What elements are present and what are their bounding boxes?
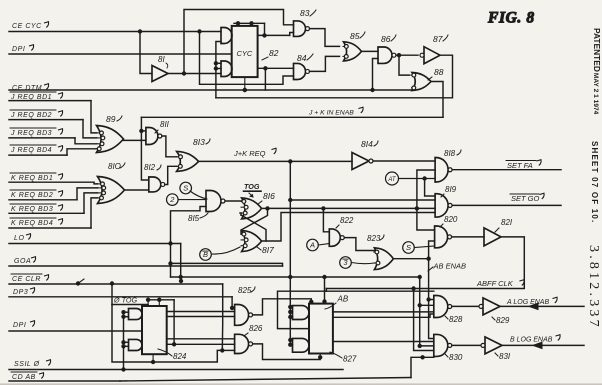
AND gate AB lower input bbox=[293, 338, 310, 352]
wire 830 to 831 bbox=[452, 344, 481, 346]
svg-text:DP3: DP3 bbox=[13, 289, 28, 296]
wire AT branch to 819 bbox=[425, 179, 436, 197]
wire 816 branch to 822 bbox=[323, 208, 329, 231]
wire LO wrap to 815 bbox=[171, 207, 207, 244]
svg-text:SHEET 07 OF 10.: SHEET 07 OF 10. bbox=[590, 141, 599, 223]
wire 814 to 818 bbox=[373, 160, 435, 162]
circle 3-bar bbox=[340, 257, 352, 269]
label PATENTED MAY 21 1974 bbox=[592, 28, 602, 115]
svg-text:J REQ BD4: J REQ BD4 bbox=[10, 147, 52, 154]
wire 88 output to J+K IN ENAB bbox=[431, 82, 443, 118]
NOR gate 816 bbox=[242, 198, 262, 219]
wire 85 to 86 bbox=[362, 50, 379, 52]
svg-text:87: 87 bbox=[433, 34, 443, 44]
wire A LOG ENAB output bbox=[500, 305, 584, 307]
svg-text:CE DTM: CE DTM bbox=[12, 85, 42, 92]
svg-text:A: A bbox=[309, 241, 315, 250]
wire 817 output riser bbox=[262, 213, 436, 242]
svg-text:CYC: CYC bbox=[237, 49, 253, 58]
wire 84 output bbox=[310, 56, 340, 71]
svg-text:S: S bbox=[406, 243, 411, 252]
svg-text:8I7: 8I7 bbox=[262, 245, 274, 255]
svg-text:K REQ BD3: K REQ BD3 bbox=[11, 206, 53, 213]
NAND gate 830 bbox=[434, 334, 448, 356]
wire J+K REQ vertical bbox=[289, 161, 291, 344]
svg-text:8I3: 8I3 bbox=[193, 137, 205, 147]
svg-text:829: 829 bbox=[496, 316, 510, 325]
NAND gate 818 bbox=[435, 158, 448, 183]
svg-text:824: 824 bbox=[173, 352, 187, 361]
wire CE CLR branch to 0TOG loop bbox=[111, 284, 113, 305]
wire CE CLR drop to 826 bbox=[221, 284, 223, 350]
svg-text:B LOG ENAB: B LOG ENAB bbox=[510, 337, 553, 344]
wire 828 to 829 bbox=[452, 305, 479, 307]
wire CE DTM riser to 86 bbox=[373, 59, 379, 91]
svg-text:82: 82 bbox=[269, 48, 279, 58]
wire 0TOG loop bbox=[112, 305, 222, 363]
inverter 814 bbox=[352, 153, 369, 170]
svg-text:88: 88 bbox=[434, 67, 444, 77]
wire 811 to 813 bbox=[162, 136, 177, 157]
wire ABFF CLK drop bbox=[414, 289, 434, 351]
wire 824 top pins bbox=[148, 299, 174, 301]
svg-text:CD AB: CD AB bbox=[12, 374, 36, 381]
svg-text:FIG. 8: FIG. 8 bbox=[487, 10, 535, 27]
NAND gate 86 bbox=[378, 47, 392, 63]
label patent number 3812337 bbox=[586, 245, 601, 330]
flip-flop CYC 82 box bbox=[232, 26, 258, 77]
wire 816 branch to 818 bbox=[417, 170, 435, 208]
NOR gate 810 bbox=[98, 177, 125, 204]
svg-text:8I9: 8I9 bbox=[445, 185, 457, 194]
svg-text:AT: AT bbox=[387, 177, 397, 183]
svg-text:8II: 8II bbox=[160, 120, 170, 129]
wire 815 to 816 bbox=[225, 200, 242, 202]
AND gate CYC lower driver bbox=[221, 61, 232, 77]
wire 826 output loop bbox=[253, 344, 321, 360]
svg-text:830: 830 bbox=[449, 353, 463, 362]
wire SSIL riser bbox=[123, 312, 125, 369]
NAND gate 819 bbox=[435, 194, 448, 217]
wire SET GO output bbox=[452, 204, 561, 206]
svg-text:A LOG ENAB: A LOG ENAB bbox=[506, 299, 549, 306]
NAND gate 812 bbox=[149, 177, 161, 192]
svg-text:8I2: 8I2 bbox=[144, 163, 156, 172]
svg-text:83: 83 bbox=[300, 8, 310, 18]
svg-text:84: 84 bbox=[297, 53, 307, 63]
inverter 87 bbox=[424, 47, 440, 64]
circle S upper bbox=[180, 182, 192, 194]
wire J+K IN ENAB drop to 811 812 bbox=[141, 117, 148, 180]
svg-text:J REQ BD3: J REQ BD3 bbox=[10, 130, 52, 137]
wire 86 to 87 bbox=[396, 54, 418, 56]
svg-text:K REQ BD1: K REQ BD1 bbox=[11, 175, 53, 182]
wire clock feedback riser bbox=[216, 42, 221, 98]
wire CYC bottom pin bbox=[244, 77, 246, 90]
wire latch cross couple bbox=[241, 208, 268, 234]
buffer 829 bbox=[483, 298, 500, 315]
wire bus J+K REQ branch bbox=[290, 199, 435, 201]
svg-text:AB ENAB: AB ENAB bbox=[433, 262, 467, 271]
svg-text:820: 820 bbox=[444, 215, 458, 224]
wire top feedback rail bbox=[184, 10, 294, 74]
svg-text:89: 89 bbox=[106, 114, 116, 124]
wire 812 to 813 bbox=[165, 166, 177, 184]
wire GOA wrap bbox=[171, 263, 283, 266]
svg-text:AB: AB bbox=[337, 295, 349, 304]
wire J+K IN ENAB line bbox=[141, 116, 443, 118]
wire AB out to 830 bbox=[333, 341, 434, 343]
svg-text:825: 825 bbox=[238, 286, 252, 295]
flip-flop AB 827 box bbox=[309, 304, 333, 354]
svg-text:SSIL Ø: SSIL Ø bbox=[14, 361, 40, 368]
svg-text:J + K IN ENAB: J + K IN ENAB bbox=[308, 110, 354, 117]
wire CE CYC to inverter 81 bbox=[140, 32, 151, 74]
wire 810 to 812 bbox=[125, 189, 149, 191]
NAND gate 826 bbox=[235, 334, 249, 353]
wire ABFF CLK bbox=[327, 237, 525, 289]
NAND gate 84 bbox=[294, 63, 306, 79]
NOR gate 85 bbox=[344, 42, 362, 61]
svg-text:8I5: 8I5 bbox=[188, 214, 200, 223]
wire 89 to 811 bbox=[124, 139, 146, 141]
wire CYC Q2 output to 84 bbox=[258, 67, 294, 69]
circle A bbox=[307, 239, 319, 251]
svg-text:J+K REQ: J+K REQ bbox=[233, 149, 266, 158]
flip-flop 824 box bbox=[142, 306, 167, 354]
svg-text:82I: 82I bbox=[501, 218, 513, 227]
svg-text:LO: LO bbox=[14, 235, 24, 242]
wire AB ENAB bbox=[393, 259, 433, 339]
svg-text:K REQ BD2: K REQ BD2 bbox=[11, 192, 53, 199]
wire 824 outputs to 826 bbox=[167, 338, 235, 340]
svg-text:S: S bbox=[183, 184, 188, 193]
NAND gate 822 bbox=[329, 229, 340, 246]
svg-text:8IO: 8IO bbox=[108, 162, 121, 171]
svg-text:85: 85 bbox=[350, 31, 360, 41]
NOR gate 823 bbox=[374, 248, 393, 270]
wire 816 branch to 820 bbox=[417, 208, 435, 230]
svg-text:GOA: GOA bbox=[14, 258, 31, 265]
svg-text:TOG: TOG bbox=[244, 182, 260, 191]
AND gate 824 lower input bbox=[129, 339, 143, 350]
svg-text:827: 827 bbox=[343, 355, 357, 364]
wire 822 to 823 bbox=[344, 238, 374, 251]
circle 2 bbox=[167, 194, 179, 206]
wire J+K REQ line bbox=[199, 160, 352, 162]
svg-text:K REQ BD4: K REQ BD4 bbox=[11, 220, 53, 227]
wire SET FA output bbox=[452, 169, 561, 171]
circle AT bbox=[386, 172, 399, 185]
svg-text:DPI: DPI bbox=[12, 46, 25, 53]
svg-text:8I6: 8I6 bbox=[263, 191, 275, 201]
svg-text:8I4: 8I4 bbox=[361, 139, 373, 149]
circle B-bar bbox=[200, 249, 212, 261]
wire ABFF CLK left end bbox=[325, 289, 327, 292]
wire GOA drop to AB pin bbox=[324, 277, 326, 304]
scan edge shading bbox=[0, 383, 602, 385]
svg-text:83I: 83I bbox=[499, 352, 511, 361]
svg-text:SET FA: SET FA bbox=[507, 161, 533, 170]
wire 823 branch to 820 bbox=[429, 241, 435, 259]
svg-text:8I: 8I bbox=[158, 55, 165, 64]
svg-text:826: 826 bbox=[249, 324, 263, 333]
wire 825 output loop bbox=[253, 299, 312, 315]
wire AB out to 828 bbox=[333, 311, 434, 313]
svg-text:CE CLR: CE CLR bbox=[12, 276, 41, 283]
svg-text:CE CYC: CE CYC bbox=[12, 23, 42, 30]
svg-text:2: 2 bbox=[169, 195, 175, 204]
wire 820 to 821 bbox=[452, 236, 484, 238]
buffer 831 bbox=[485, 337, 502, 354]
svg-text:86: 86 bbox=[381, 34, 391, 44]
NAND gate 815 bbox=[206, 191, 221, 212]
wire 81 output bbox=[168, 73, 221, 75]
wire J+K REQ taps to AB gates bbox=[288, 305, 292, 309]
NOR gate 89 bbox=[97, 126, 124, 153]
svg-text:J REQ BD2: J REQ BD2 bbox=[10, 112, 52, 119]
AND gate AB upper input bbox=[293, 306, 309, 320]
svg-text:828: 828 bbox=[449, 315, 463, 324]
OR gate 813 bbox=[177, 151, 199, 171]
svg-text:823: 823 bbox=[367, 234, 381, 243]
wire B LOG ENAB output bbox=[502, 344, 584, 346]
NAND gate 820 bbox=[435, 226, 448, 248]
wire CYC Q output to 83 bbox=[258, 34, 290, 36]
NOR gate 88 bbox=[412, 73, 431, 91]
svg-text:8I8: 8I8 bbox=[444, 149, 456, 158]
NAND gate 83 bbox=[294, 21, 306, 37]
wire AB out2 under 828 bbox=[333, 314, 434, 317]
wire AB bottom pin bbox=[319, 354, 321, 360]
svg-text:DPI: DPI bbox=[13, 322, 26, 329]
AND gate 824 upper input bbox=[129, 309, 143, 320]
wire 87 output feedback bbox=[216, 55, 453, 98]
svg-text:SET GO: SET GO bbox=[511, 194, 540, 203]
wire CE CYC branch down bbox=[200, 32, 294, 85]
NAND gate 825 bbox=[235, 305, 249, 326]
AND gate CYC upper driver bbox=[221, 28, 232, 44]
svg-text:ABFF CLK: ABFF CLK bbox=[476, 279, 514, 288]
label SHEET 07 OF 10 bbox=[590, 141, 599, 223]
circle S lower bbox=[403, 242, 415, 254]
wire 824 outputs to 825 bbox=[167, 311, 235, 313]
svg-text:3.812.337: 3.812.337 bbox=[586, 245, 601, 330]
svg-text:822: 822 bbox=[340, 216, 354, 225]
wire LO wrap lower segment bbox=[170, 244, 172, 278]
NAND gate 828 bbox=[434, 296, 448, 318]
wire 816 output bbox=[262, 207, 268, 209]
wire 83 output bbox=[310, 29, 340, 47]
inverter 81 bbox=[152, 66, 168, 82]
svg-text:Ø TOG: Ø TOG bbox=[113, 296, 137, 305]
wire CYC top pins bbox=[234, 22, 265, 24]
NAND gate 811 bbox=[146, 128, 158, 145]
NOR gate 817 bbox=[242, 231, 262, 252]
wire 86out branch to 88 bbox=[399, 55, 410, 75]
buffer 821 bbox=[484, 228, 501, 246]
wire GOA line drop bbox=[420, 277, 434, 346]
wire AB clock input bbox=[278, 291, 327, 328]
